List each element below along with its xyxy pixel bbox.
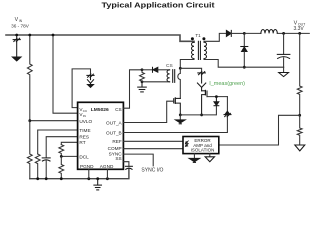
wire secondary bottom rail <box>204 59 284 68</box>
svg-text:RT: RT <box>79 140 85 145</box>
ground error amp right (open triangle) <box>209 154 211 157</box>
wire clamp branch from switch node <box>180 68 201 73</box>
wire VCC pin network <box>72 69 90 108</box>
transformer CT current sense secondary <box>167 70 170 82</box>
wire SS pin to soft start cap <box>123 162 128 167</box>
ground PGND earth symbol <box>94 179 102 190</box>
wire T1 secondary top to rectifier <box>204 33 226 42</box>
wire RT pin <box>61 142 77 144</box>
svg-text:T1: T1 <box>195 33 201 38</box>
wire DCL pin <box>61 155 77 157</box>
inductor L1 output <box>244 32 261 34</box>
IC U1 LM5026 box <box>78 102 124 169</box>
svg-text:36 - 78V: 36 - 78V <box>11 23 30 28</box>
transformer T1 phase dot primary <box>191 37 194 40</box>
ground divider (open triangle) <box>295 145 305 151</box>
svg-text:PGND: PGND <box>80 164 94 169</box>
transformer T1 primary winding <box>191 42 194 58</box>
wire T1 primary bottom to switch node <box>180 59 194 69</box>
junction dot UVLO node <box>28 119 31 122</box>
junction dot divider node top <box>298 32 301 35</box>
svg-text:REF: REF <box>112 139 122 144</box>
svg-text:TIME: TIME <box>79 128 90 133</box>
diode D2 gate (pointing down) <box>214 97 219 106</box>
wire PGND to ground rail <box>88 169 90 178</box>
wire REF to error amp <box>123 140 183 142</box>
transformer T1 phase dot secondary <box>202 37 205 40</box>
svg-text:AGND: AGND <box>100 164 114 169</box>
wire CT secondary bottom <box>142 81 170 83</box>
svg-text:CS: CS <box>115 107 122 112</box>
diode D3 output rectifier <box>226 30 231 36</box>
svg-text:IN: IN <box>83 114 86 118</box>
transformer CT primary (main line bump) <box>178 68 181 98</box>
svg-text:Typical Application Circuit: Typical Application Circuit <box>102 0 216 9</box>
resistor R4 RT <box>59 145 64 157</box>
junction dot cap node <box>282 32 285 35</box>
resistor R1 UVLO top <box>27 35 32 121</box>
wire RES pin <box>46 137 77 158</box>
junction dot CS node <box>141 68 144 71</box>
wire SYNC pin <box>123 154 153 166</box>
capacitor C1 RES <box>42 158 50 161</box>
wire VIN pin direct from rail <box>53 35 78 113</box>
svg-text:DCL: DCL <box>79 154 89 159</box>
svg-text:IN: IN <box>19 19 23 23</box>
diode Z3 zener on gate riser <box>224 111 231 117</box>
transformer T1 core <box>198 41 200 59</box>
wire VOUT rail <box>277 32 309 34</box>
capacitor C2 soft start <box>125 166 132 169</box>
junction dot Q1 source node <box>179 114 182 117</box>
transformer CT core lines <box>173 70 175 83</box>
resistor R2 UVLO bottom <box>27 121 32 179</box>
transformer T1 secondary winding <box>204 42 207 58</box>
wire Q2 gate line <box>207 96 227 98</box>
resistor R6 CS filter <box>140 70 145 82</box>
ground error amp left (filled) <box>193 154 195 159</box>
wire VIN top rail <box>6 35 194 42</box>
svg-text:I_meas(green): I_meas(green) <box>209 81 245 87</box>
junction dots bottom rail <box>36 177 39 180</box>
svg-text:SS: SS <box>115 156 121 161</box>
junction dot rail col A <box>28 34 31 37</box>
junction dot freewheel bottom <box>243 66 246 69</box>
transistor Q1 main switch N-FET <box>174 98 181 115</box>
diode Z1 VCC zener <box>87 74 94 84</box>
resistor R3 TIME <box>35 154 40 179</box>
resistor R8 divider bottom <box>297 115 302 145</box>
diode D4 freewheeling (pointing up) <box>243 33 245 46</box>
diode D_tvs input TVS <box>13 35 20 57</box>
node VOUT label <box>293 20 306 32</box>
wire CS pin to sense network <box>123 70 142 108</box>
junction dot gate line <box>215 95 218 98</box>
wire source node line <box>180 106 216 115</box>
IC U1 pin labels <box>79 107 122 169</box>
svg-text:CS: CS <box>166 63 173 69</box>
svg-text:3.3V: 3.3V <box>293 26 304 32</box>
diode Z2 clamp zener <box>197 72 205 91</box>
node VIN label <box>11 17 30 28</box>
wire OUT_B to clamp gate riser <box>123 97 227 133</box>
junction dot feedback node <box>298 114 301 117</box>
svg-text:OUT_B: OUT_B <box>106 130 122 135</box>
capacitor C3 output <box>283 33 285 54</box>
junction dot DCL node <box>60 155 63 158</box>
svg-text:RES: RES <box>79 135 89 140</box>
diode D1 CS (cathode left) <box>142 69 152 71</box>
ground CS earth symbol <box>138 82 147 92</box>
junction dot switch node <box>179 67 182 70</box>
wire feedback node to error amp <box>219 115 300 145</box>
junction dot rail-TVS <box>15 34 18 37</box>
ground under TVS (filled) <box>12 57 21 61</box>
junction dot clamp-source node <box>200 114 203 117</box>
wire COMP to error amp <box>123 148 183 150</box>
junction dot CS bottom node <box>141 80 144 83</box>
svg-text:LM5026: LM5026 <box>91 107 109 113</box>
ground under VCC zener (filled) <box>88 85 94 88</box>
wire AGND to ground rail <box>106 169 108 178</box>
wire bottom ground rail <box>30 168 129 179</box>
resistor R5 DCL <box>59 156 64 178</box>
svg-text:SYNC I/O: SYNC I/O <box>141 167 163 173</box>
wire UVLO pin <box>30 120 78 122</box>
opto arrows icon in error amp <box>185 141 188 147</box>
svg-text:OUT_A: OUT_A <box>106 120 123 125</box>
resistor R7 divider top <box>297 33 302 115</box>
op-amp U2 error amp and isolation box <box>183 137 219 154</box>
junction dot rail col B <box>52 34 55 37</box>
wire OUT_A to Q1 gate <box>123 101 173 122</box>
ground Q1 source (filled) <box>179 115 181 120</box>
wire TIME pin <box>38 130 78 154</box>
svg-text:COMP: COMP <box>108 146 122 151</box>
junction dot rectifier node <box>243 32 246 35</box>
svg-text:ISOLATION: ISOLATION <box>191 147 215 152</box>
transistor Q2 active clamp FET <box>202 90 207 115</box>
ground output (open triangle) <box>283 67 285 72</box>
svg-text:UVLO: UVLO <box>79 119 92 124</box>
